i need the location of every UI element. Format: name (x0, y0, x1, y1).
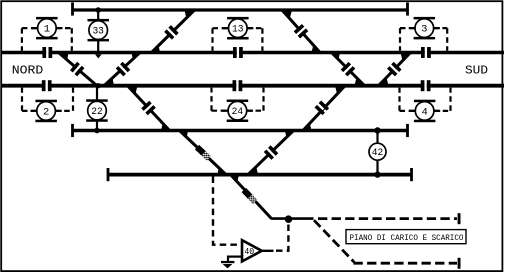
svg-text:SUD: SUD (465, 65, 488, 78)
flare at track IV x=179.5 (178, 131, 189, 138)
flare at track I x=282 (280, 10, 292, 19)
flare at track II x=410.5 (401, 53, 413, 61)
end tick dashed lower (458, 258, 461, 269)
track IV (siding) (72, 129, 408, 132)
flare at track III x=127.5 (126, 86, 138, 94)
signal 13 with dashed box (227, 17, 249, 20)
joint on B-C left turnout (70, 62, 84, 77)
track II (main, NORD-SUD upper) (2, 51, 504, 55)
joint on dock diagonal segment 1 (141, 101, 156, 116)
svg-text:4: 4 (421, 106, 427, 118)
svg-text:40: 40 (244, 247, 254, 257)
label box PIANO DI CARICO E SCARICO (346, 230, 466, 244)
dashed lower dock track (354, 262, 458, 265)
joint on track II below signal 13 (237, 50, 239, 55)
svg-text:22: 22 (91, 106, 103, 117)
dashed siding to loading dock (upper) (318, 217, 457, 220)
dashed diagonal to lower dock track (314, 220, 354, 262)
node on track V at signal 42 (374, 171, 380, 177)
joint on track III above signal 4 (424, 83, 426, 88)
node on track IV at signal 42 (374, 127, 380, 133)
flare at track II x=320 (312, 45, 323, 53)
ladder diagonal B-to-C right (332, 53, 365, 86)
flare at track I x=194.5 (185, 10, 197, 18)
ladder diagonal B-to-A left (152, 10, 195, 53)
node on track I at signal 33 (95, 7, 101, 13)
joint on C-B ladder diagonal (116, 62, 131, 77)
flare at track II x=58.5 (57, 53, 69, 61)
flare at track III x=104 (102, 78, 114, 86)
joint on A-B ladder diagonal (294, 24, 309, 38)
flare at track V x=248 (246, 167, 258, 175)
track V right end tick (410, 168, 413, 181)
svg-text:24: 24 (232, 106, 244, 118)
signal 22 (96, 86, 98, 100)
ladder diagonal A-to-B right (282, 10, 320, 53)
track I (top siding) (72, 8, 408, 11)
svg-text:3: 3 (421, 24, 427, 36)
dock diagonal segment E-to-dock (231, 175, 272, 219)
dashed wire relay output to node (276, 223, 288, 251)
track III (main, NORD-SUD lower) (2, 84, 504, 88)
track I right end tick (406, 2, 409, 15)
svg-text:2: 2 (43, 106, 49, 118)
joint on track II below signal 3 (425, 50, 427, 55)
dock diagonal segment C-to-D (128, 86, 170, 131)
siding diagonal segment D-to-E (248, 131, 294, 175)
signal 2 with dashed box (35, 100, 57, 103)
flare at track IV x=293.5 (285, 131, 296, 138)
joint on track III above signal 2 (46, 83, 48, 88)
track V left end tick (107, 168, 110, 181)
signal 42 (376, 131, 378, 175)
node J1 on track III (95, 83, 100, 88)
track IV left end tick (71, 124, 74, 137)
flare at track V x=230.5 (below) (229, 175, 240, 182)
signal 1 with dashed box (36, 17, 58, 20)
end tick dashed upper (458, 213, 461, 224)
signal 24 with dashed box (227, 100, 249, 103)
svg-text:NORD: NORD (12, 64, 44, 77)
svg-text:1: 1 (44, 24, 50, 36)
track I left end tick (71, 2, 74, 15)
signal 33 (97, 10, 99, 20)
svg-text:42: 42 (372, 147, 384, 158)
flare at track V x=226 (above) (218, 168, 229, 175)
signal 4 with dashed box (414, 100, 436, 103)
joint on siding diagonal lower (264, 145, 279, 160)
ladder diagonal C-to-B left (104, 53, 140, 86)
flare at track II x=140 (below) (132, 53, 143, 60)
signal 3 with dashed box (414, 17, 436, 20)
joint on B-C ladder diagonal (341, 62, 356, 77)
dither mark on dock diagonal segment 2 (195, 145, 211, 161)
svg-text:PIANO DI CARICO E SCARICO: PIANO DI CARICO E SCARICO (350, 234, 464, 243)
joint on B-A ladder diagonal (164, 25, 179, 40)
joint on track III above signal 24 (236, 83, 238, 88)
dock diagonal segment D-to-E (180, 131, 227, 175)
joint on C-B right turnout (387, 62, 402, 77)
flare at track IV x=169.5 (161, 123, 172, 130)
svg-text:33: 33 (92, 26, 104, 37)
joint on siding diagonal upper (315, 101, 330, 116)
dither mark on dock diagonal segment 3 (242, 188, 258, 204)
siding diagonal segment C-to-D (303, 86, 345, 131)
track V (lower siding) (108, 173, 413, 177)
ground (228, 256, 242, 258)
dock lead horizontal (271, 217, 314, 220)
flare at track II x=331.5 (330, 53, 341, 60)
relay 40 (track circuit device) (242, 240, 262, 261)
joint on track II below signal 1 (46, 50, 48, 55)
flare at track III x=378.5 (377, 77, 389, 85)
node at dock lead (285, 215, 293, 223)
flare at track IV x=303 (301, 123, 312, 130)
track IV right end tick (406, 124, 409, 137)
dashed wire track V to relay input (213, 177, 241, 245)
flare at track III x=364.5 (355, 78, 367, 86)
flare at track III x=345 (335, 86, 347, 94)
flare at track II x=151.5 (above) (150, 46, 161, 53)
turnout wire B-to-C left (59, 53, 98, 86)
turnout wire C-to-B right (379, 53, 411, 86)
svg-text:13: 13 (232, 24, 244, 36)
node on track IV at signal 22 (94, 128, 100, 134)
